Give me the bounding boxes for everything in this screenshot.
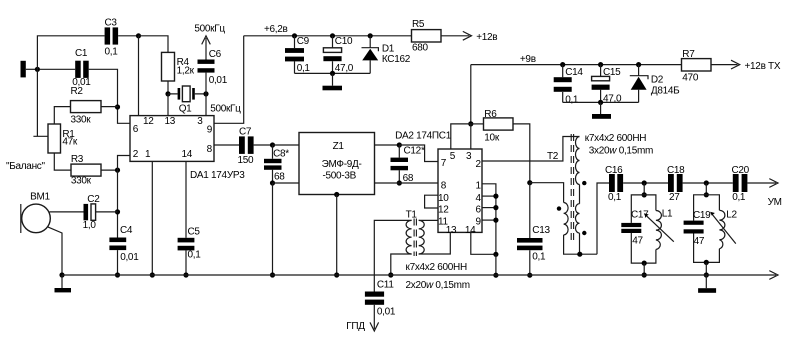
resistor R6 bbox=[471, 109, 513, 143]
wire node down to R1 wiper bbox=[33, 69, 48, 136]
junction ground stem bbox=[330, 71, 335, 76]
wire T2 bottom joining bbox=[564, 233, 597, 254]
wire R2 left to R1 top bbox=[54, 107, 70, 124]
wire T1 left top to C11 bbox=[374, 220, 411, 291]
wire C5 to bus bbox=[185, 250, 187, 275]
svg-text:2: 2 bbox=[476, 159, 482, 170]
svg-text:14: 14 bbox=[182, 149, 193, 160]
junction C8 bus bbox=[270, 272, 275, 277]
arrow 500kHz up bbox=[202, 36, 211, 45]
wire BM1 to ground drop bbox=[48, 227, 63, 275]
svg-text:47к: 47к bbox=[62, 137, 78, 148]
svg-text:"Баланс": "Баланс" bbox=[6, 161, 45, 172]
wire node D down through C2 node to C4 bbox=[117, 170, 119, 237]
wire R2 right to node bbox=[101, 106, 118, 108]
junction pin 4 bbox=[493, 194, 498, 199]
svg-text:0,01: 0,01 bbox=[120, 252, 139, 263]
svg-text:330к: 330к bbox=[71, 175, 92, 186]
T2 left winding bbox=[564, 203, 569, 235]
svg-text:Z1: Z1 bbox=[333, 141, 345, 152]
arrow +12v TX bbox=[731, 60, 740, 69]
svg-text:ЭМФ-9Д-: ЭМФ-9Д- bbox=[322, 159, 362, 170]
svg-text:0,1: 0,1 bbox=[565, 95, 579, 106]
junction C2 node bbox=[115, 209, 120, 214]
microphone BM1 bbox=[21, 192, 51, 233]
junction C4 on bus bbox=[115, 272, 120, 277]
junction T1 bus bbox=[388, 272, 393, 277]
junction node L bbox=[642, 180, 647, 185]
svg-text:C20: C20 bbox=[732, 165, 750, 176]
junction input node bbox=[35, 67, 40, 72]
arrow +12v bbox=[463, 31, 472, 40]
junction C5 bus bbox=[183, 272, 188, 277]
junction pin 6 bbox=[493, 205, 498, 210]
capacitor C6 bbox=[198, 49, 228, 86]
svg-text:D2: D2 bbox=[651, 74, 664, 85]
svg-text:13: 13 bbox=[165, 116, 176, 127]
wire DA2 pin 6 stub bbox=[482, 207, 496, 209]
junction node B bbox=[136, 33, 141, 38]
IC DA1 174UR3 bbox=[130, 116, 214, 162]
wire C20 to UM arrow bbox=[747, 182, 776, 184]
svg-text:0,1: 0,1 bbox=[732, 192, 746, 203]
resistor R7 bbox=[682, 49, 712, 84]
wire node to DA2 pin 3 bbox=[470, 124, 472, 149]
svg-text:C1: C1 bbox=[75, 48, 88, 59]
svg-text:C4: C4 bbox=[120, 225, 133, 236]
svg-text:68: 68 bbox=[274, 171, 285, 182]
svg-text:1: 1 bbox=[145, 149, 151, 160]
junction Z1 case pin bbox=[334, 192, 339, 197]
junction T2 bottom bbox=[577, 252, 582, 257]
svg-text:680: 680 bbox=[412, 42, 429, 53]
resistor R4 bbox=[162, 52, 195, 81]
wire DA2 pin 1 to common node bbox=[482, 184, 496, 255]
wire DA2 pin 9 stub bbox=[482, 219, 496, 221]
wire C2 to node bbox=[96, 211, 118, 213]
ground symbol left bbox=[61, 275, 63, 288]
wire Z1 case to bus bbox=[336, 195, 338, 276]
net +9v rail bbox=[471, 64, 682, 66]
svg-text:0,1: 0,1 bbox=[532, 251, 546, 262]
ground symbol right bbox=[705, 275, 707, 288]
svg-text:-500-3В: -500-3В bbox=[323, 171, 357, 182]
capacitor C4 bbox=[109, 225, 139, 263]
T2 core bbox=[571, 134, 573, 240]
svg-text:C9: C9 bbox=[297, 36, 310, 47]
svg-text:ВМ1: ВМ1 bbox=[30, 192, 50, 203]
resistor R2 bbox=[71, 86, 102, 125]
svg-text:0,01: 0,01 bbox=[209, 75, 228, 86]
arrow GPD down bbox=[370, 322, 379, 331]
svg-text:7: 7 bbox=[441, 158, 447, 169]
svg-text:9: 9 bbox=[476, 217, 482, 228]
capacitor C1 bbox=[72, 48, 91, 88]
svg-text:6: 6 bbox=[476, 205, 482, 216]
wire C16 to node L bbox=[623, 182, 668, 184]
svg-text:C16: C16 bbox=[605, 165, 623, 176]
junction DA2 ground bus bbox=[493, 273, 498, 278]
wire C6 up to 500kHz output arrow bbox=[205, 38, 207, 60]
resistor R1 (balance pot) bbox=[48, 124, 78, 153]
svg-text:R6: R6 bbox=[484, 109, 497, 120]
junction node J bbox=[397, 180, 402, 185]
junction node M bbox=[704, 180, 709, 185]
wire decouple bus +9v bbox=[563, 101, 639, 103]
capacitor C20 bbox=[732, 165, 750, 203]
capacitor C15 (electrolytic) bbox=[592, 65, 622, 105]
svg-text:12: 12 bbox=[438, 205, 449, 216]
wire node K to T2 left winding top bbox=[530, 183, 564, 203]
svg-text:C14: C14 bbox=[565, 67, 583, 78]
junction node H bbox=[270, 180, 275, 185]
svg-text:КС162: КС162 bbox=[382, 54, 411, 65]
svg-text:+6,2в: +6,2в bbox=[264, 24, 288, 35]
svg-text:C8*: C8* bbox=[273, 148, 289, 159]
svg-text:13: 13 bbox=[446, 225, 457, 236]
svg-text:3x20w 0,15mm: 3x20w 0,15mm bbox=[589, 145, 653, 156]
svg-text:8: 8 bbox=[441, 180, 447, 191]
svg-text:27: 27 bbox=[669, 192, 680, 203]
wire node M to tank 2 bbox=[705, 183, 707, 195]
svg-text:47,0: 47,0 bbox=[335, 63, 354, 74]
svg-text:DA2 174ПС1: DA2 174ПС1 bbox=[395, 131, 452, 142]
capacitor C7 bbox=[238, 126, 255, 166]
svg-text:C13: C13 bbox=[532, 225, 550, 236]
junction tank2 bus bbox=[704, 272, 709, 277]
svg-text:R7: R7 bbox=[682, 49, 695, 60]
svg-text:0,1: 0,1 bbox=[608, 192, 622, 203]
tank circuit C19 L2 bbox=[684, 195, 738, 263]
junction node G bbox=[270, 142, 275, 147]
junction pin1 bus bbox=[150, 272, 155, 277]
junction ground stem +9v bbox=[598, 100, 603, 105]
svg-text:500кГц: 500кГц bbox=[210, 104, 241, 115]
junction node D bbox=[115, 168, 120, 173]
wire common node to bus bbox=[495, 254, 497, 275]
wire DA1 pin 1 to bus bbox=[151, 161, 153, 275]
svg-text:3: 3 bbox=[466, 151, 472, 162]
capacitor C2 (electrolytic) bbox=[83, 194, 101, 231]
svg-text:L2: L2 bbox=[726, 209, 737, 220]
T2 phasing dot right lower bbox=[582, 231, 586, 235]
svg-text:330к: 330к bbox=[71, 114, 92, 125]
wire DA2 pins 10-12 loop bbox=[425, 195, 438, 208]
ground symbol middle bbox=[600, 102, 602, 114]
svg-text:2x20w 0,15mm: 2x20w 0,15mm bbox=[406, 280, 470, 291]
crystal Q1 bbox=[168, 86, 241, 115]
junction tank1 top bbox=[642, 192, 647, 197]
svg-text:Д814Б: Д814Б bbox=[651, 85, 680, 96]
svg-text:Q1: Q1 bbox=[179, 104, 192, 115]
wire node J to DA2 pin 8 bbox=[399, 182, 438, 184]
svg-text:47: 47 bbox=[632, 235, 643, 246]
wire node G to Z1 upper input bbox=[273, 144, 300, 146]
wire T1 left bottom to bus bbox=[391, 254, 412, 275]
svg-text:1: 1 bbox=[476, 181, 482, 192]
svg-text:10к: 10к bbox=[484, 133, 500, 144]
wire BM1 to C2 bbox=[50, 211, 84, 213]
input terminal pad bbox=[21, 61, 26, 78]
svg-text:R3: R3 bbox=[71, 154, 84, 165]
wire node H down to bus bbox=[272, 183, 274, 275]
wire DA1 pin 9 to +6.2v rail bbox=[214, 36, 244, 124]
wire decouple bus top bbox=[295, 72, 371, 74]
junction node I bbox=[397, 142, 402, 147]
svg-text:0,01: 0,01 bbox=[377, 307, 396, 318]
wire node L to tank 1 bbox=[643, 183, 645, 195]
junction mic ground on bus bbox=[59, 272, 64, 277]
wire R6 right down to T2 feed node K bbox=[513, 124, 530, 183]
svg-text:DA1 174УР3: DA1 174УР3 bbox=[190, 170, 245, 181]
svg-text:+12в ТХ: +12в ТХ bbox=[745, 61, 781, 72]
zener diode D1 KS162 bbox=[362, 36, 411, 74]
svg-text:0,1: 0,1 bbox=[105, 46, 119, 57]
junction C10 rail bbox=[330, 33, 335, 38]
wire DA2 pin 2 to T2 right winding top bbox=[482, 137, 580, 162]
capacitor C5 bbox=[178, 226, 202, 260]
svg-text:0,1: 0,1 bbox=[297, 63, 311, 74]
wire tank1 to bus bbox=[643, 263, 645, 275]
svg-text:L1: L1 bbox=[662, 209, 673, 220]
resistor R3 bbox=[71, 154, 101, 186]
arrow UM output bbox=[769, 179, 778, 188]
wire DA2 pin 14 to common node bbox=[471, 232, 496, 254]
junction C13 bus bbox=[527, 273, 532, 278]
capacitor C10 (electrolytic) bbox=[323, 36, 353, 74]
T2 phasing dot right upper bbox=[582, 181, 586, 185]
wire node up to C6 bbox=[205, 73, 207, 94]
svg-text:2: 2 bbox=[133, 149, 139, 160]
inductor L2 bbox=[719, 210, 725, 249]
junction pin 14 node bbox=[493, 252, 498, 257]
junction Z1 bus bbox=[334, 272, 339, 277]
capacitor C3 bbox=[105, 18, 119, 58]
wire node B to R4 top bbox=[139, 36, 169, 53]
wire R4 bottom to crystal node bbox=[167, 81, 169, 94]
junction D1 rail bbox=[368, 33, 373, 38]
wire node to DA1 pin 3 bbox=[205, 94, 207, 116]
tank circuit C17 L1 bbox=[621, 195, 674, 263]
wire node to DA1 pin 13 bbox=[167, 94, 169, 116]
svg-text:0,1: 0,1 bbox=[188, 249, 202, 260]
svg-text:T2: T2 bbox=[547, 151, 559, 162]
net +6.2v rail bbox=[244, 35, 412, 37]
IC DA2 174PS1 bbox=[438, 149, 482, 236]
wire C4 to bus bbox=[117, 250, 119, 275]
wire node B down to DA1 pin 12 bbox=[138, 36, 140, 116]
wire +9v drop to DA2 node bbox=[470, 65, 472, 124]
svg-text:D1: D1 bbox=[382, 43, 395, 54]
junction C14 rail bbox=[560, 62, 565, 67]
capacitor C19 bbox=[684, 221, 704, 225]
wire C11 to GPD arrow bbox=[373, 305, 375, 329]
svg-text:9: 9 bbox=[207, 125, 213, 136]
junction node K bbox=[527, 180, 532, 185]
svg-text:1,0: 1,0 bbox=[83, 220, 97, 231]
wire DA2 pin 11 to T1 bbox=[419, 219, 438, 221]
svg-text:T1: T1 bbox=[406, 210, 418, 221]
capacitor C8 bbox=[264, 145, 289, 183]
svg-text:150: 150 bbox=[238, 155, 255, 166]
wire DA2 pin 4 stub bbox=[482, 195, 496, 197]
svg-text:к7х4х2 600НН: к7х4х2 600НН bbox=[585, 133, 646, 144]
transformer T2 bbox=[547, 134, 587, 240]
svg-text:C11: C11 bbox=[377, 280, 394, 291]
junction pin 9 bbox=[493, 218, 498, 223]
svg-text:4: 4 bbox=[476, 193, 482, 204]
junction crystal right node bbox=[203, 91, 208, 96]
junction tank2 top bbox=[704, 192, 709, 197]
capacitor C17 bbox=[621, 223, 641, 227]
capacitor C14 bbox=[554, 65, 584, 106]
capacitor C9 bbox=[285, 36, 310, 74]
junction C15 rail bbox=[598, 62, 603, 67]
filter Z1 EMF-9D-500-3V bbox=[299, 133, 375, 195]
capacitor C13 bbox=[517, 183, 550, 276]
wire DA1 pin 8 to C7 bbox=[214, 144, 239, 146]
svg-text:C7: C7 bbox=[239, 126, 252, 137]
T2 right winding lower bbox=[576, 185, 580, 234]
wire R7 to +12v TX arrow bbox=[711, 64, 738, 66]
svg-text:8: 8 bbox=[207, 144, 213, 155]
wire Z1 upper output to node I bbox=[375, 144, 400, 146]
wire C7 to node G bbox=[254, 144, 273, 146]
svg-text:C3: C3 bbox=[105, 18, 118, 29]
T2 phasing dot left bbox=[557, 206, 561, 210]
wire Z1 lower output to node J bbox=[375, 182, 400, 184]
svg-text:47: 47 bbox=[694, 236, 705, 247]
wire node to DA2 pin 5 bbox=[451, 124, 471, 149]
net ground bus bbox=[62, 274, 776, 276]
junction DA2 supply node bbox=[468, 121, 473, 126]
capacitor C12 bbox=[391, 145, 425, 184]
inductor L1 bbox=[656, 211, 662, 250]
svg-text:C15: C15 bbox=[603, 67, 621, 78]
junction C9 rail bbox=[292, 33, 297, 38]
wire node H to Z1 lower input bbox=[273, 182, 300, 184]
wire T2 tap up to C16 bbox=[597, 183, 609, 254]
svg-text:+9в: +9в bbox=[520, 54, 536, 65]
svg-text:470: 470 bbox=[682, 73, 699, 84]
svg-text:3: 3 bbox=[197, 116, 203, 127]
resistor R5 bbox=[412, 19, 442, 53]
svg-text:C5: C5 bbox=[188, 226, 201, 237]
junction D2 rail bbox=[636, 62, 641, 67]
arrow ground bus end bbox=[769, 271, 778, 280]
wire R5 to +12v arrow bbox=[441, 35, 469, 37]
wire terminal to node bbox=[26, 68, 38, 70]
T2 right winding upper bbox=[576, 137, 580, 185]
svg-text:500кГц: 500кГц bbox=[194, 23, 225, 34]
wire C3 to node B bbox=[118, 35, 138, 37]
wire node D to DA1 pin 2 bbox=[118, 156, 131, 171]
svg-text:6: 6 bbox=[133, 124, 139, 135]
svg-text:1,2к: 1,2к bbox=[177, 65, 195, 76]
zener diode D2 D814B bbox=[630, 65, 680, 103]
capacitor C11 bbox=[365, 280, 396, 318]
ground symbol top bbox=[332, 73, 334, 85]
svg-text:к7х4х2 600НН: к7х4х2 600НН bbox=[406, 262, 467, 273]
svg-text:5: 5 bbox=[450, 151, 456, 162]
wire DA1 pin 14 to C5 bbox=[185, 161, 187, 237]
junction tank2 bottom bbox=[704, 260, 709, 265]
junction crystal left node bbox=[165, 91, 170, 96]
svg-text:C6: C6 bbox=[209, 49, 222, 60]
svg-text:12: 12 bbox=[143, 116, 154, 127]
transformer T1 bbox=[406, 210, 425, 256]
svg-text:ГПД: ГПД bbox=[346, 321, 365, 332]
svg-text:R2: R2 bbox=[71, 86, 84, 97]
svg-text:C10: C10 bbox=[335, 36, 353, 47]
svg-text:R5: R5 bbox=[412, 19, 425, 30]
capacitor C18 bbox=[667, 165, 685, 203]
wire DA2 pin 13 to T1 bbox=[419, 232, 451, 254]
wire node I to DA2 pin 7 bbox=[399, 145, 438, 162]
svg-text:C12*: C12* bbox=[404, 146, 425, 157]
svg-text:C18: C18 bbox=[667, 165, 685, 176]
wire C18 to node M bbox=[683, 182, 733, 184]
capacitor C16 bbox=[605, 165, 623, 203]
junction R2 node bbox=[115, 104, 120, 109]
wire R1 bottom to R3 bbox=[54, 153, 71, 170]
wire tank2 to bus bbox=[705, 262, 707, 275]
wire node to C1 bbox=[40, 68, 75, 70]
wire R3 right to node D bbox=[101, 169, 118, 171]
svg-text:+12в: +12в bbox=[476, 32, 497, 43]
junction tank1 bus bbox=[642, 272, 647, 277]
svg-text:C19: C19 bbox=[693, 210, 711, 221]
wire C1 to DA1 pin 6 bbox=[89, 69, 130, 123]
svg-text:УМ: УМ bbox=[768, 197, 782, 208]
wire node up to C3 feed bbox=[37, 36, 104, 70]
junction tank1 bottom bbox=[642, 261, 647, 266]
svg-text:10: 10 bbox=[438, 193, 449, 204]
svg-text:C2: C2 bbox=[87, 194, 100, 205]
